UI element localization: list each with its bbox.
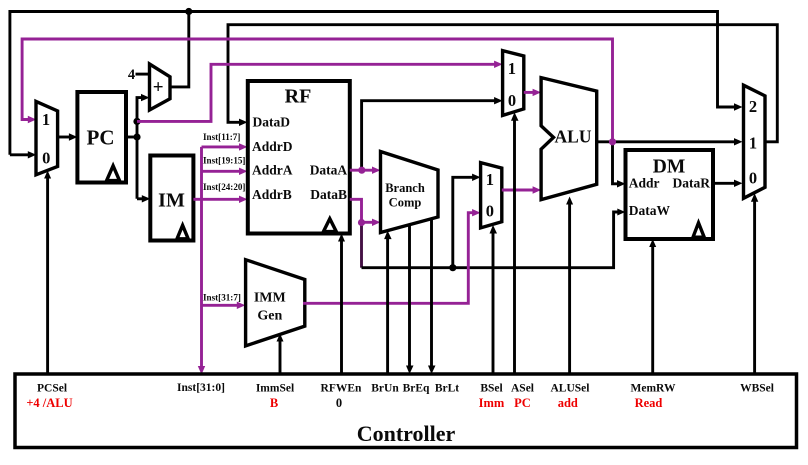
svg-text:+4 /ALU: +4 /ALU [26,396,72,410]
ALU [541,78,597,200]
svg-text:Controller: Controller [357,421,456,446]
signal wire: BrEq down to controller [406,225,414,375]
wire: immediate purple to BSel mux input 0 [303,209,481,303]
svg-text:Inst[19:15]: Inst[19:15] [203,156,245,166]
svg-text:Addr: Addr [629,176,660,191]
junction dot: PC node at output level [133,133,140,140]
mux BSel (inputs 1/0) [481,163,502,228]
wire: PC output node verticals (to adder, to IM) [126,94,150,203]
svg-text:+: + [153,77,164,98]
register PC [77,92,126,183]
svg-text:ALU: ALU [555,127,592,147]
mux WBSel (inputs 2/1/0) [744,85,766,198]
control wire: ASel [511,112,519,374]
svg-text:Gen: Gen [257,308,282,323]
wire: WB mux output rail back to RF DataD [228,25,777,142]
svg-text:AddrB: AddrB [252,187,292,202]
junction dot: adder output joins top rail [185,8,192,15]
svg-text:Comp: Comp [389,196,422,210]
wire: IM instruction output purple bus [193,143,247,374]
svg-text:add: add [558,396,578,410]
svg-text:BSel: BSel [480,382,502,394]
svg-text:AddrA: AddrA [252,162,293,177]
svg-text:DM: DM [653,156,686,177]
svg-text:0: 0 [508,91,516,110]
register file RF [248,81,350,234]
immediate generator IMM Gen [246,260,305,346]
svg-text:WBSel: WBSel [740,382,774,394]
svg-text:0: 0 [336,396,342,410]
control wire: BrUn [384,231,392,374]
control wire: PCSel [44,171,51,375]
wire: store rail up to BSel mux input 1 [453,174,481,268]
svg-text:Branch: Branch [385,181,425,195]
junction dot: store rail to BSel mux input 1 [449,264,456,271]
control wire: ALUSel [566,197,573,375]
svg-text:BrEq: BrEq [403,382,430,394]
branch comparator [381,152,439,233]
svg-text:DataD: DataD [253,114,291,129]
svg-text:DataW: DataW [629,203,671,218]
controller box [15,374,797,448]
control wire: MemRW [649,239,656,374]
signal wire: BrLt down to controller [428,219,436,374]
control wire: ImmSel [277,334,284,375]
mux ASel (inputs 1/0) [503,51,524,116]
wire: PC value purple to ASel mux input 1 [137,61,503,122]
svg-text:DataA: DataA [310,162,348,177]
svg-text:IMM: IMM [254,290,286,305]
svg-text:DataR: DataR [673,176,711,191]
adder (+) mux-shaped trapezoid [150,64,171,110]
wire: DataA to Branch Comp and up to ASel mux input 0 [350,97,503,174]
svg-text:1: 1 [508,59,516,78]
svg-text:PC: PC [87,126,115,150]
wire: ALU result purple feedback to PC mux input 1 [22,39,612,140]
svg-text:Imm: Imm [479,396,505,410]
svg-text:1: 1 [42,110,50,129]
svg-text:RF: RF [285,85,312,107]
svg-text:AddrD: AddrD [252,139,293,154]
junction dot: PC node upper (purple branch) [133,118,140,125]
wire: PC mux output into PC [58,133,78,140]
svg-text:4: 4 [128,67,135,83]
wire: 4 into adder [136,73,150,76]
data memory DM [626,150,714,239]
svg-text:ImmSel: ImmSel [256,382,294,394]
svg-text:Inst[24:20]: Inst[24:20] [203,182,245,192]
svg-text:ALUSel: ALUSel [551,382,590,394]
control wire: WBSel [751,193,758,374]
wire: adder output up to top rail [170,12,189,87]
svg-text:BrUn: BrUn [371,382,399,394]
mux PCSel (inputs 1/0) [36,101,58,174]
instruction memory IM [150,156,193,241]
wire: DataB to Branch Comp, down to store-data rail [350,199,626,267]
junction dot: DataB node [358,219,365,226]
svg-text:PC: PC [514,396,531,410]
svg-text:Inst[11:7]: Inst[11:7] [203,132,240,142]
junction dot: DataA node [358,167,365,174]
svg-text:RFWEn: RFWEn [321,382,363,394]
svg-text:BrLt: BrLt [435,382,459,394]
svg-text:Inst[31:0]: Inst[31:0] [177,382,225,394]
wire: ALU output to WB mux input 1 and down to DM Addr [597,138,743,187]
wire: ASel mux output to ALU input A [524,89,541,96]
svg-text:B: B [270,396,278,410]
svg-text:1: 1 [749,134,757,153]
svg-text:0: 0 [486,202,494,221]
svg-text:MemRW: MemRW [631,382,676,394]
control wire: BSel [490,225,498,374]
svg-text:2: 2 [749,97,757,116]
svg-text:0: 0 [42,148,50,167]
wire: BSel mux output to ALU input B [502,186,541,193]
svg-text:DataB: DataB [310,187,347,202]
wire: PC+4 top rail to PC mux input 0 and WB mux input 2 [10,12,743,159]
control wire: RFWEn [338,234,345,375]
svg-text:1: 1 [486,170,494,189]
wire: DM DataR to WB mux input 0 [713,180,743,187]
svg-text:Inst[31:7]: Inst[31:7] [203,292,241,302]
junction dot: ALU output node [609,138,616,145]
svg-text:IM: IM [158,190,185,212]
svg-text:ASel: ASel [511,382,534,394]
svg-text:0: 0 [749,169,757,188]
svg-text:PCSel: PCSel [37,382,67,394]
svg-text:Read: Read [635,396,663,410]
